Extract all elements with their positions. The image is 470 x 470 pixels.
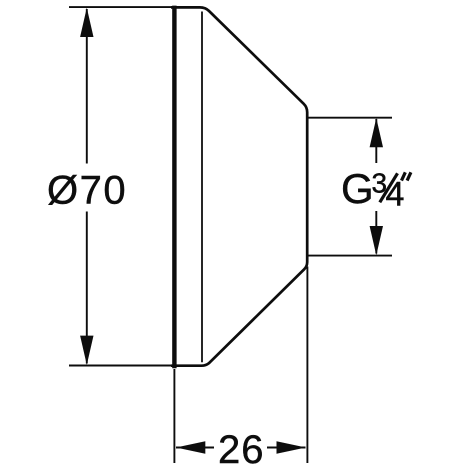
arrowhead G3/4 up xyxy=(370,118,383,147)
extension line 26 right xyxy=(306,267,308,464)
part inner edge line xyxy=(201,12,203,363)
fraction slash xyxy=(380,173,398,202)
extension line right top (G3/4) xyxy=(307,117,392,119)
svg-text:Ø70: Ø70 xyxy=(47,168,127,212)
part outline (escutcheon cross-section) xyxy=(171,7,307,365)
dimension line G3/4 upper segment xyxy=(375,119,377,163)
svg-text:4: 4 xyxy=(386,176,405,214)
extension line 26 left xyxy=(173,369,175,463)
extension line top (dia 70) xyxy=(69,6,172,8)
arrowhead 26 right xyxy=(277,441,306,454)
dimension line dia70 upper segment xyxy=(86,9,88,164)
arrowhead dia70 down xyxy=(80,336,93,365)
dimension line 26 right segment xyxy=(267,447,306,449)
dimension line 26 left segment xyxy=(176,447,214,449)
svg-text:26: 26 xyxy=(218,428,265,470)
arrowhead G3/4 down xyxy=(370,226,383,255)
extension line right bottom (G3/4) xyxy=(307,255,392,257)
inch double prime tick 2 xyxy=(407,172,411,180)
dimension line dia70 lower segment xyxy=(86,212,88,364)
arrowhead dia70 up xyxy=(80,8,93,37)
arrowhead 26 left xyxy=(176,441,205,454)
extension line bottom (dia 70) xyxy=(69,365,172,367)
dimension line G3/4 lower segment xyxy=(375,211,377,254)
svg-text:G: G xyxy=(341,165,374,212)
inch double prime tick 1 xyxy=(402,172,406,180)
part left face edge (thick) xyxy=(172,6,176,369)
